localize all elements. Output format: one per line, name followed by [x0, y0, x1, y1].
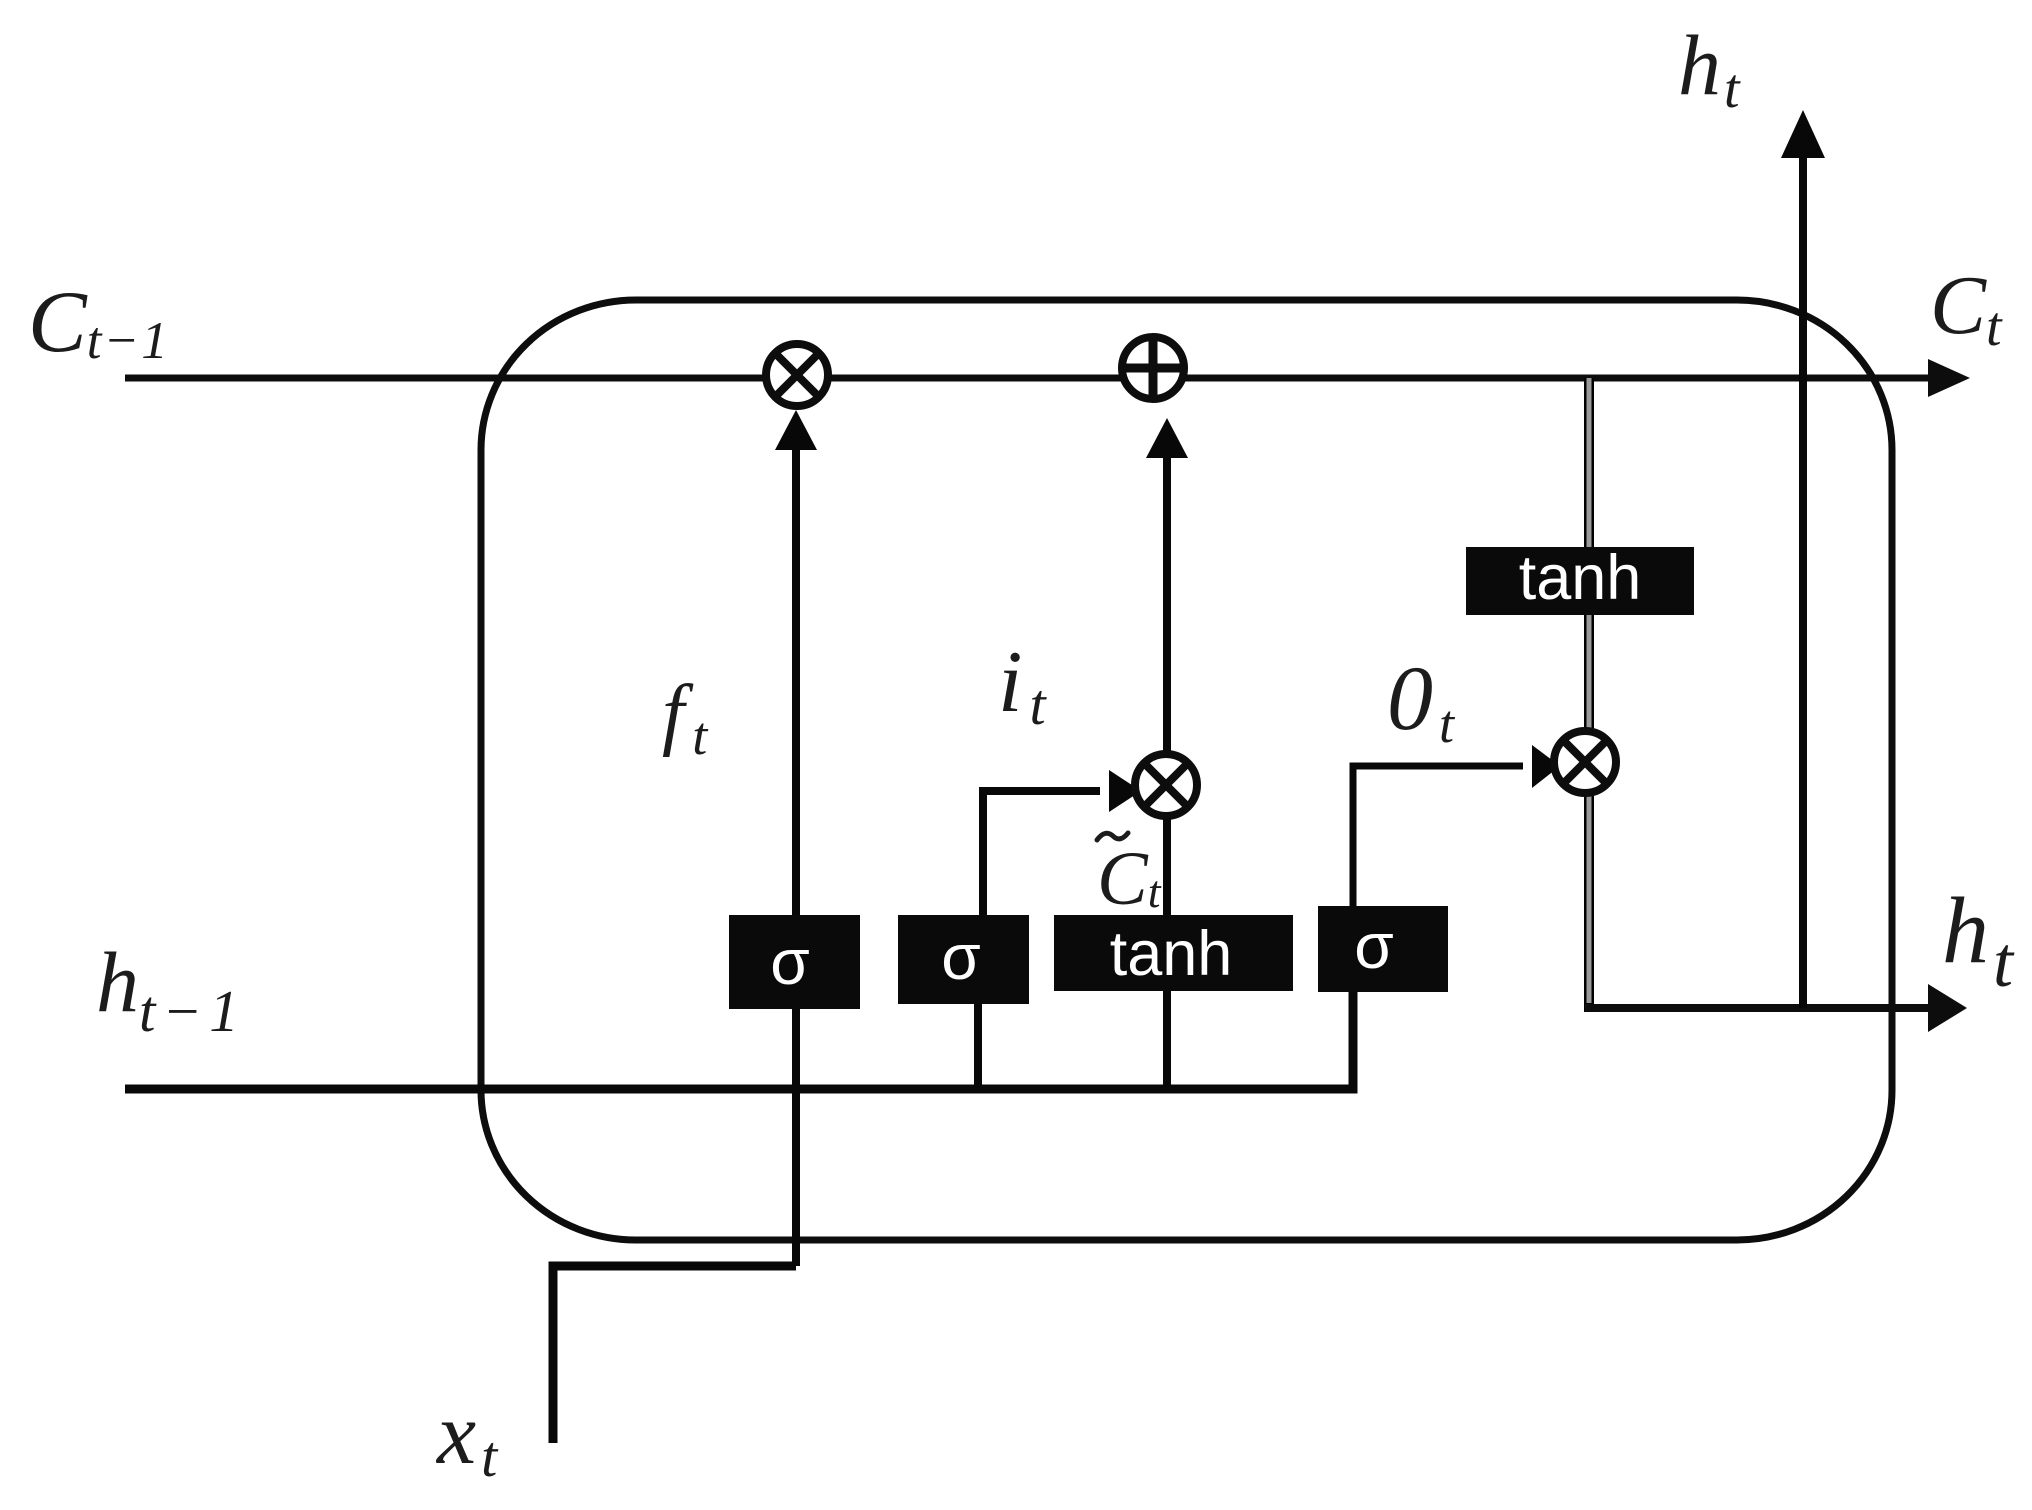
svg-text:it: it: [998, 634, 1047, 737]
multiply node X2 (input gate): [1135, 754, 1197, 816]
wire X3 down to h_t output (gray): [1584, 793, 1594, 1012]
svg-text:tanh: tanh: [1110, 919, 1233, 989]
wire i_t path from sigma2 top to multiply X2: [983, 791, 1100, 915]
svg-text:Ct: Ct: [1097, 837, 1162, 921]
wire candidate column above tanh1 to X2: [1163, 815, 1171, 918]
arrowhead into X3: [1532, 745, 1560, 788]
arrowhead h_t top: [1781, 110, 1825, 158]
arrowhead into X2: [1109, 770, 1141, 812]
wire 0_t path from sigma3 top to multiply X3: [1353, 766, 1523, 906]
wire branch below tanh1: [1163, 990, 1171, 1089]
arrowhead C_t output: [1928, 359, 1970, 397]
plus node (cell state update): [1119, 334, 1187, 402]
wire cell-state C line: [125, 375, 1934, 382]
gate tanh2 (output squash): [1466, 547, 1694, 615]
arrowhead into plus node: [1146, 418, 1188, 458]
svg-text:Ct−1: Ct−1: [28, 274, 170, 371]
svg-text:0t: 0t: [1387, 647, 1456, 754]
wire X2 up to plus node: [1163, 458, 1171, 755]
svg-text:Ct: Ct: [1930, 259, 2003, 358]
gate sigma1 (forget): [729, 915, 860, 1009]
svg-text:ht−1: ht−1: [96, 934, 246, 1044]
arrowhead into X1: [775, 410, 817, 450]
wire branch to sigma2: [974, 1002, 982, 1089]
svg-text:tanh: tanh: [1519, 543, 1642, 613]
gate sigma3 (output): [1318, 906, 1448, 992]
wire f_t column (x_t up through sigma1 to multiply X1): [792, 448, 800, 1266]
multiply node X1 (forget gate): [766, 344, 828, 406]
wire tanh2 column (gray) from C line to X3: [1584, 378, 1594, 731]
svg-text:σ: σ: [770, 926, 810, 998]
svg-text:xt: xt: [435, 1386, 499, 1489]
gate sigma2 (input): [898, 915, 1029, 1004]
svg-text:ft: ft: [662, 670, 709, 766]
wire h_t output horizontal: [1585, 1004, 1931, 1012]
svg-text:σ: σ: [941, 921, 981, 993]
wire h_(t-1) input line: [125, 992, 1353, 1089]
tilde of C~_t: [1097, 833, 1128, 840]
wire x_t input (vertical then horizontal to f gate column): [553, 1266, 796, 1443]
LSTM cell body (rounded rectangle): [481, 300, 1892, 1240]
wire h_t vertical to top: [1799, 158, 1807, 1008]
gate tanh1 (candidate): [1054, 915, 1293, 991]
svg-text:σ: σ: [1354, 910, 1394, 982]
multiply node X3 (output gate): [1554, 731, 1616, 793]
svg-text:ht: ht: [1678, 17, 1741, 120]
arrowhead h_t right: [1928, 984, 1967, 1032]
svg-text:ht: ht: [1942, 879, 2015, 1002]
